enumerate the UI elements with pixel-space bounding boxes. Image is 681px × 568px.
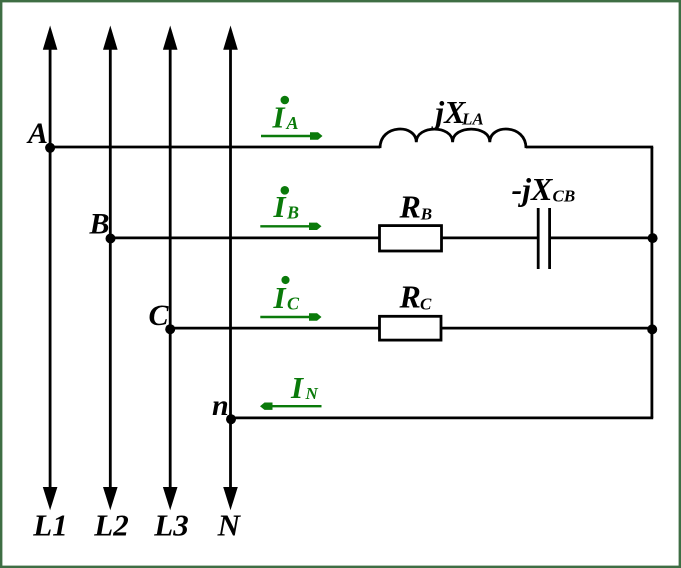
current arrow IB (260, 223, 321, 230)
svg-text:N: N (217, 507, 242, 542)
junction dot B right (648, 233, 658, 243)
resistor RC (380, 316, 442, 340)
label IB (273, 186, 300, 224)
capacitor -jXCB (538, 208, 549, 269)
svg-text:L3: L3 (153, 507, 188, 542)
resistor RB (380, 226, 442, 251)
current arrow IN (260, 403, 322, 410)
svg-text:C: C (149, 299, 170, 332)
svg-text:L1: L1 (32, 507, 67, 542)
wire phase B right (550, 236, 654, 239)
conductor L1 (43, 26, 58, 511)
current arrow IC (260, 313, 321, 320)
inductor jXLA (380, 129, 526, 148)
wire neutral n (231, 416, 654, 419)
wire phase B middle (442, 236, 538, 239)
svg-text:n: n (212, 389, 229, 422)
wire phase C left (170, 327, 379, 330)
conductor L2 (103, 26, 118, 511)
junction dot C right (647, 324, 657, 334)
node A (45, 143, 55, 153)
node C (165, 324, 175, 334)
wire phase A left (50, 146, 380, 149)
wire phase A right (526, 146, 653, 149)
svg-text:L2: L2 (93, 507, 128, 542)
svg-text:A: A (26, 117, 48, 150)
wire right bus (651, 147, 654, 418)
svg-text:B: B (89, 207, 110, 240)
label IA (272, 96, 299, 135)
wire phase C right (441, 327, 653, 330)
node n (226, 414, 236, 424)
node B (106, 234, 116, 244)
conductor L3 (163, 26, 178, 511)
current arrow IA (261, 132, 323, 139)
conductor N (223, 26, 238, 511)
wire phase B left (110, 236, 379, 239)
label IC (273, 276, 301, 315)
